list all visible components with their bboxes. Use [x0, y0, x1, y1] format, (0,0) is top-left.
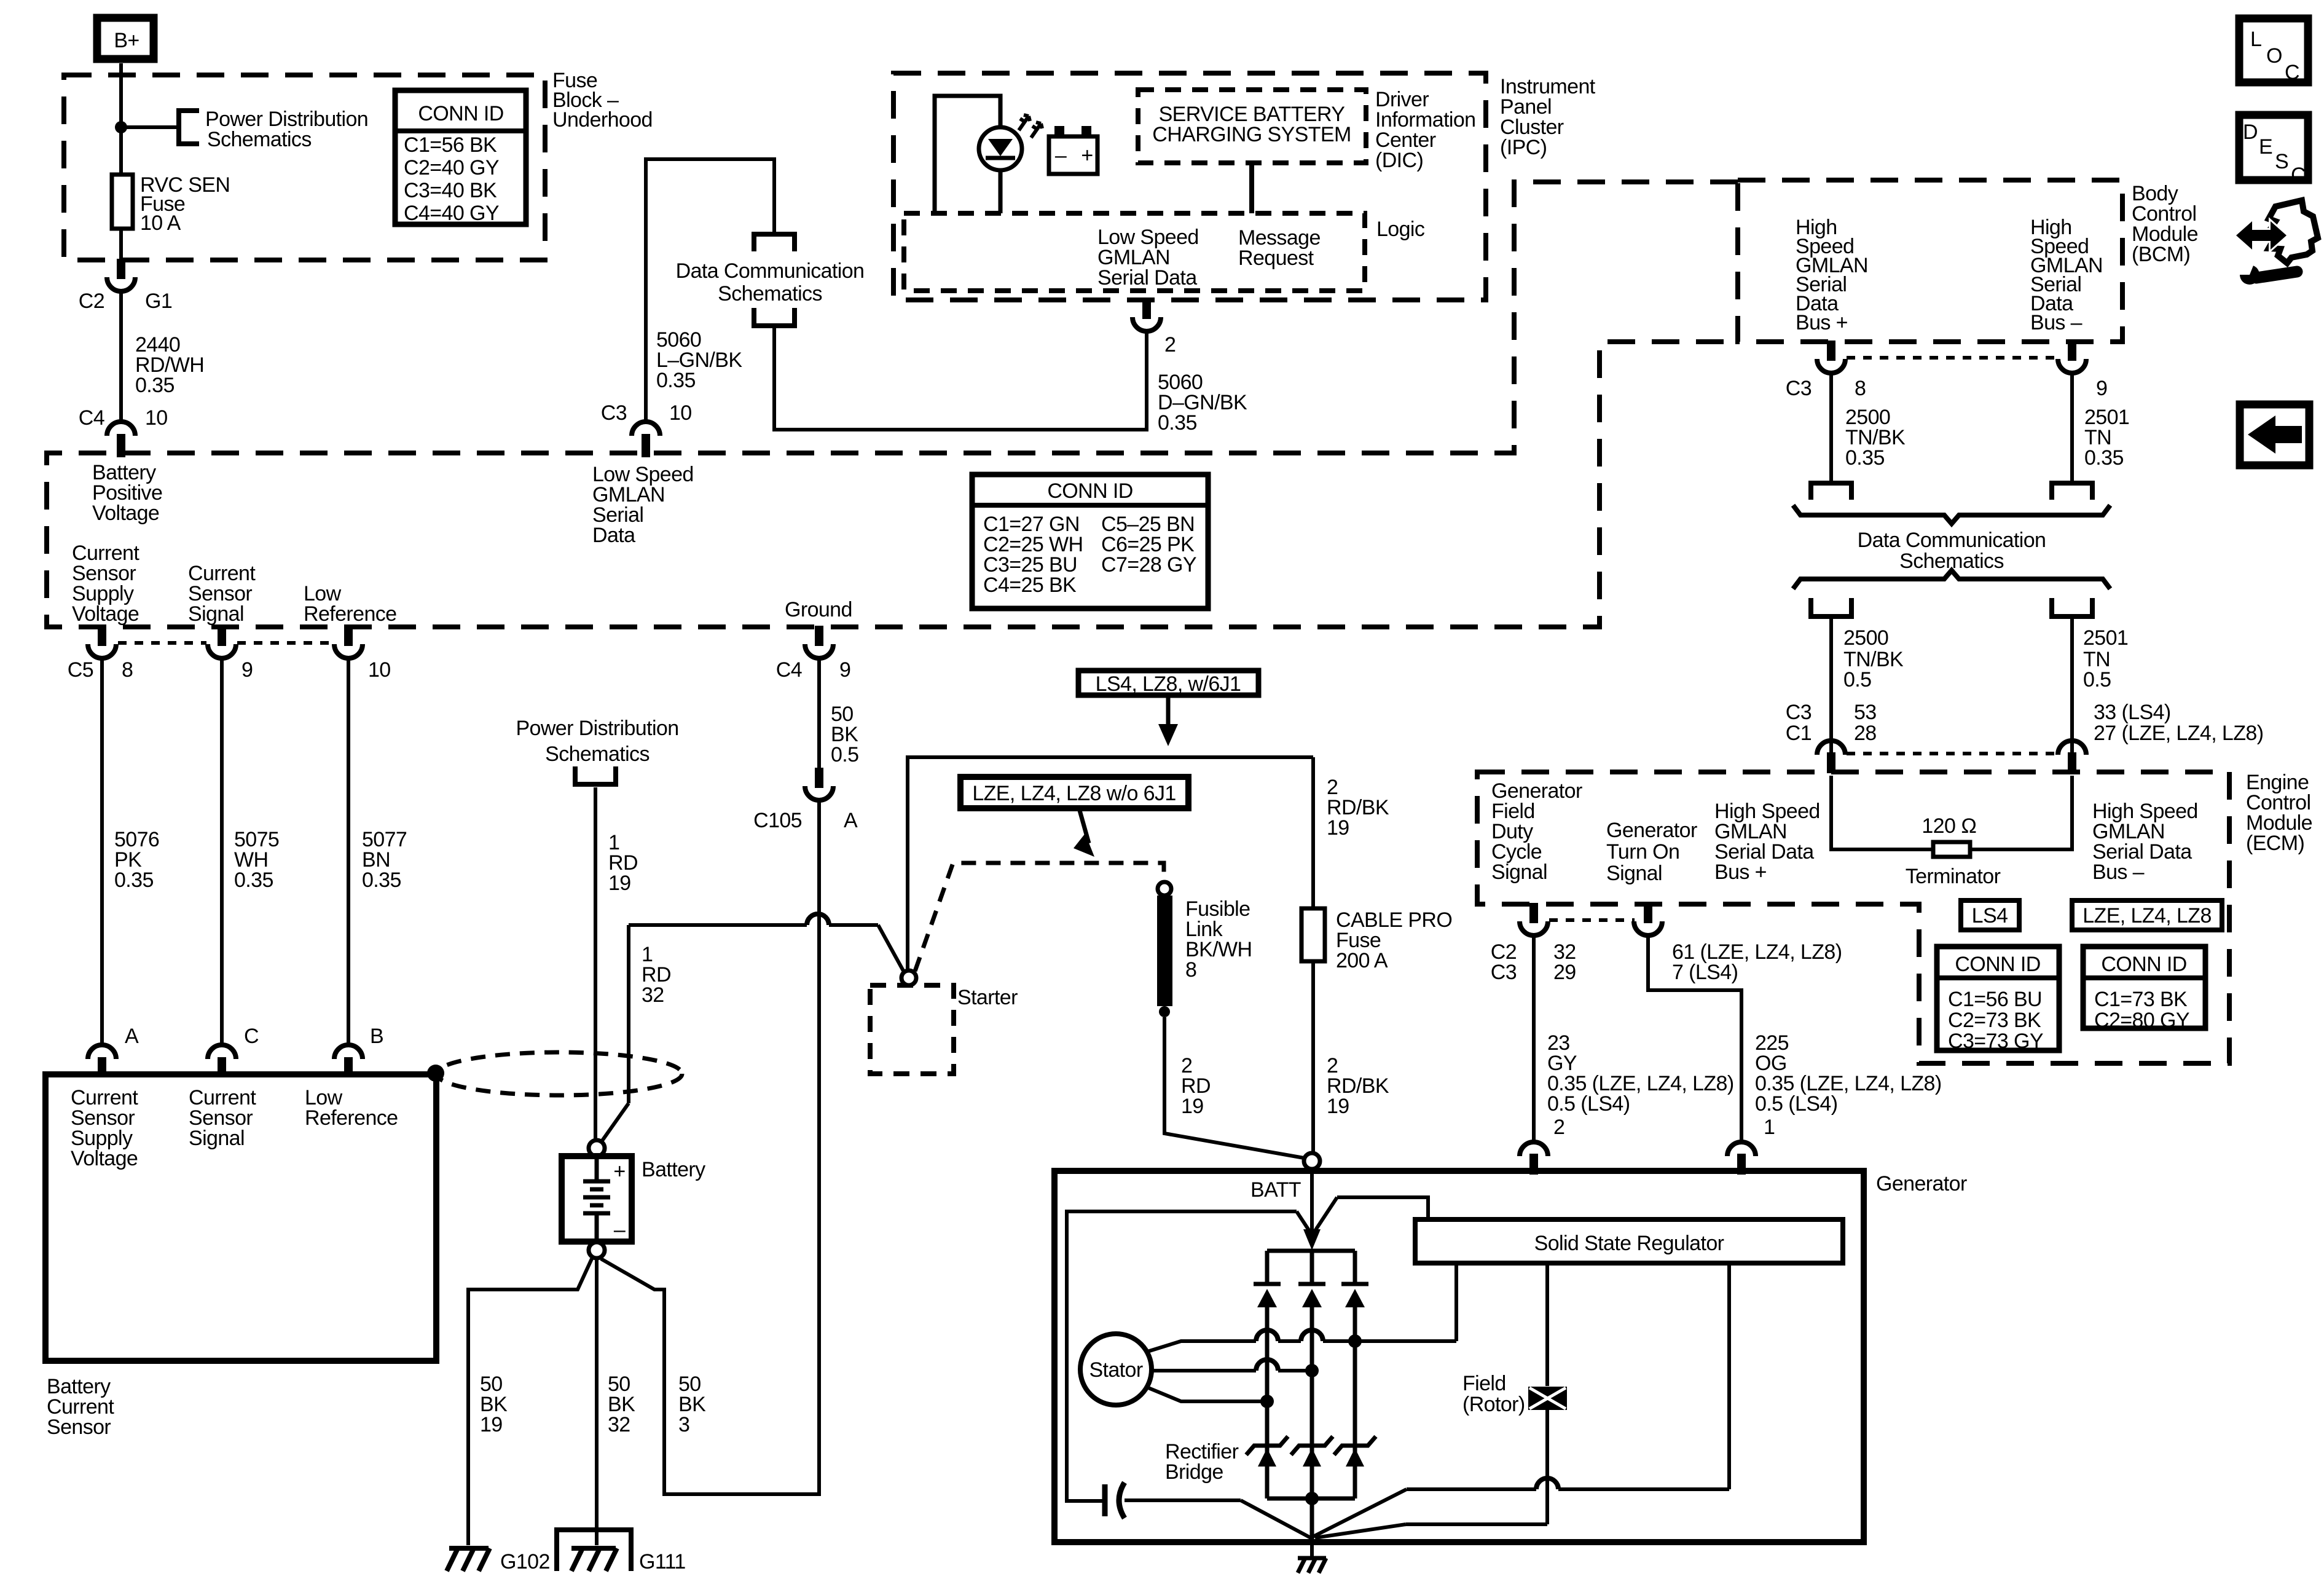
- label Instrument Panel Cluster IPC: [1500, 75, 1596, 159]
- svg-text:CONN ID: CONN ID: [418, 102, 503, 125]
- svg-text:32: 32: [608, 1413, 630, 1436]
- label 2440 RD/WH 0.35: [135, 333, 204, 397]
- svg-text:Reference: Reference: [305, 1106, 398, 1130]
- svg-text:Logic: Logic: [1376, 218, 1425, 241]
- arrow from LZE box: [1074, 808, 1094, 857]
- power distribution schematics callout middle: [516, 717, 678, 766]
- data comm callout upper bracket: [754, 234, 795, 251]
- label Generator Turn On Signal: [1606, 819, 1697, 885]
- label 50 BK 19: [480, 1372, 508, 1436]
- terminal bracket lower left: [1811, 598, 1851, 616]
- regulator ground wire: [1313, 1263, 1729, 1537]
- connector pin 9: [208, 626, 253, 682]
- svg-text:C4: C4: [79, 406, 104, 430]
- svg-text:Terminator: Terminator: [1906, 865, 2001, 888]
- connector BCM C3 8: [1786, 341, 1866, 400]
- svg-text:Bus –: Bus –: [2030, 311, 2083, 334]
- label Fusible Link BK/WH 8: [1185, 897, 1252, 982]
- label Current Sensor Signal sensor: [189, 1086, 256, 1150]
- svg-text:27 (LZE, LZ4, LZ8): 27 (LZE, LZ4, LZ8): [2094, 722, 2263, 745]
- svg-text:E: E: [2259, 135, 2272, 159]
- stator wire top: [1145, 1263, 1456, 1352]
- label 2501 TN 0.5: [2083, 626, 2128, 691]
- svg-text:CHARGING SYSTEM: CHARGING SYSTEM: [1152, 123, 1351, 146]
- CONN ID table LZE: [2083, 947, 2205, 1032]
- svg-text:28: 28: [1854, 722, 1877, 745]
- BATT node generator: [1304, 1153, 1320, 1169]
- label Battery Current Sensor: [47, 1375, 114, 1439]
- wire B+ to fuse: [119, 63, 123, 260]
- svg-text:(BCM): (BCM): [2132, 243, 2190, 266]
- charge indicator LED circuit: [935, 96, 1022, 213]
- svg-text:(DIC): (DIC): [1375, 149, 1423, 172]
- wire 5075 WH: [220, 658, 224, 1043]
- connector B: [334, 1025, 383, 1077]
- zener bottom center: [1291, 1436, 1333, 1467]
- label Power Distribution Schematics: [205, 108, 368, 151]
- svg-text:Voltage: Voltage: [92, 502, 159, 525]
- svg-text:8: 8: [1855, 377, 1866, 400]
- node at power distribution tap: [115, 121, 127, 133]
- svg-text:Data Communication: Data Communication: [1858, 529, 2046, 552]
- svg-text:Schematics: Schematics: [207, 128, 312, 151]
- wire 50 BK 0.5: [817, 658, 821, 768]
- battery current sensor box: [45, 1074, 436, 1361]
- svg-text:0.35: 0.35: [1158, 411, 1197, 435]
- svg-text:C1=56 BU: C1=56 BU: [1948, 988, 2042, 1011]
- label 2500 TN/BK 0.5: [1843, 626, 1904, 691]
- svg-text:Battery: Battery: [642, 1158, 705, 1181]
- svg-text:Signal: Signal: [188, 602, 244, 626]
- label 2500 TN/BK 0.35: [1845, 406, 1906, 470]
- wire 2 RD 19: [1164, 1017, 1304, 1158]
- svg-text:C3=73 GY: C3=73 GY: [1948, 1030, 2043, 1053]
- DESC icon box: [2239, 115, 2308, 187]
- svg-text:0.35: 0.35: [656, 369, 696, 392]
- svg-text:BATT: BATT: [1250, 1178, 1301, 1202]
- ground G111: [557, 1530, 686, 1573]
- svg-text:G111: G111: [639, 1550, 686, 1573]
- svg-text:C3: C3: [1786, 701, 1812, 724]
- svg-text:Signal: Signal: [1606, 862, 1662, 885]
- svg-text:C1: C1: [1786, 722, 1812, 745]
- svg-text:G102: G102: [500, 1550, 550, 1573]
- svg-text:Voltage: Voltage: [72, 602, 139, 626]
- svg-text:120 Ω: 120 Ω: [1922, 814, 1976, 838]
- label 50 BK 0.5: [831, 703, 858, 766]
- svg-text:Generator: Generator: [1606, 819, 1697, 842]
- svg-text:+: +: [613, 1160, 625, 1183]
- mate dotted ECM top: [1847, 752, 2057, 755]
- wire BATT into bridge: [1303, 1169, 1321, 1250]
- wire 50 BK 3 ground loop: [601, 800, 819, 1494]
- svg-text:0.5 (LS4): 0.5 (LS4): [1755, 1092, 1837, 1116]
- label 1 RD 19: [608, 831, 638, 895]
- svg-text:C2=73 BK: C2=73 BK: [1948, 1009, 2041, 1032]
- zener bottom right: [1334, 1436, 1376, 1467]
- svg-text:C1=56 BK: C1=56 BK: [404, 133, 497, 157]
- label Data Communication Schematics callout: [676, 259, 865, 305]
- svg-text:C105: C105: [753, 809, 802, 832]
- wire w6J1 feed to starter: [908, 757, 1313, 971]
- svg-text:9: 9: [241, 658, 253, 682]
- wire battery negative to G111: [595, 1258, 599, 1545]
- harness dashed box: [47, 182, 1738, 627]
- svg-text:0.35: 0.35: [362, 868, 401, 892]
- svg-text:(Rotor): (Rotor): [1462, 1393, 1525, 1416]
- svg-text:B+: B+: [114, 29, 139, 52]
- back arrow icon box: [2240, 404, 2309, 465]
- terminal bracket upper left: [1811, 483, 1851, 500]
- diode top center: [1298, 1250, 1325, 1498]
- label Low Speed GMLAN Serial Data harness: [592, 463, 694, 547]
- svg-text:19: 19: [1327, 816, 1349, 840]
- diode top right: [1341, 1251, 1368, 1498]
- label Current Sensor Signal harness: [188, 562, 256, 626]
- fuse RVC SEN 10A: [112, 175, 133, 229]
- svg-text:C4=40 GY: C4=40 GY: [404, 202, 499, 225]
- label 5075 WH 0.35: [234, 828, 279, 892]
- svg-text:S: S: [2275, 150, 2288, 173]
- capacitor: [1105, 1483, 1311, 1538]
- label Current Sensor Supply Voltage harness: [72, 541, 139, 626]
- connector ECM bus minus: [2058, 701, 2263, 773]
- wire C3 to data comm callout: [646, 159, 774, 422]
- svg-text:O: O: [2266, 44, 2282, 68]
- ground G102: [447, 1548, 550, 1573]
- underbrace data comm: [1793, 505, 2110, 524]
- svg-text:Data: Data: [592, 524, 635, 547]
- battery: [562, 1156, 632, 1242]
- mate dotted line C5 connectors: [118, 641, 333, 645]
- svg-text:7 (LS4): 7 (LS4): [1672, 961, 1738, 984]
- connector BCM 9: [2058, 341, 2107, 400]
- label RVC SEN fuse: [140, 173, 230, 235]
- svg-text:2501: 2501: [2083, 626, 2128, 650]
- svg-text:(ECM): (ECM): [2246, 832, 2304, 855]
- svg-text:C2=80 GY: C2=80 GY: [2094, 1009, 2189, 1032]
- svg-text:Stator: Stator: [1089, 1358, 1142, 1382]
- svg-text:Turn On: Turn On: [1606, 840, 1679, 864]
- svg-text:CONN ID: CONN ID: [1955, 953, 2040, 976]
- svg-text:19: 19: [1181, 1095, 1204, 1118]
- CABLE PRO fuse 200A: [1301, 908, 1325, 961]
- generator internal ground: [1298, 1539, 1326, 1573]
- IPC dashed box: [893, 73, 1486, 300]
- mate dotted BCM: [1847, 356, 2057, 360]
- connector A: [88, 1025, 139, 1077]
- svg-text:C4=25 BK: C4=25 BK: [983, 573, 1077, 597]
- svg-text:Field: Field: [1462, 1372, 1506, 1395]
- label 2501 TN 0.35: [2084, 406, 2129, 470]
- svg-text:0.35: 0.35: [135, 374, 175, 397]
- overbrace data comm: [1793, 570, 2110, 589]
- svg-text:–: –: [1055, 144, 1067, 167]
- LZE LZ4 LZ8 wo6J1 box: [960, 777, 1188, 808]
- svg-text:10 A: 10 A: [140, 211, 181, 235]
- svg-text:0.5: 0.5: [831, 743, 858, 766]
- svg-text:10: 10: [669, 401, 692, 425]
- label Body Control Module BCM: [2132, 182, 2198, 266]
- stator wire middle: [1152, 1360, 1319, 1377]
- label Generator Field Duty Cycle Signal: [1491, 779, 1582, 884]
- CONN ID table LS4: [1937, 947, 2059, 1053]
- SERVICE BATTERY CHARGING SYSTEM box: [1138, 90, 1366, 163]
- battery icon IPC: [1049, 126, 1097, 174]
- label 2 RD/BK 19 upper: [1327, 776, 1389, 840]
- fuse block dashed box: [64, 75, 545, 260]
- svg-text:Bus +: Bus +: [1796, 311, 1848, 334]
- label High Speed GMLAN Serial Data Bus plus ECM: [1714, 800, 1820, 884]
- starter node: [901, 971, 916, 985]
- label 5077 BN 0.35: [362, 828, 407, 892]
- LS4 LZ8 w6J1 box: [1078, 671, 1258, 696]
- svg-text:0.35: 0.35: [114, 868, 154, 892]
- svg-text:Sensor: Sensor: [47, 1416, 111, 1439]
- connector generator pin 2: [1520, 1116, 1564, 1175]
- label Message Request: [1238, 226, 1321, 270]
- bracket below power distribution callout: [575, 766, 616, 784]
- stator: [1080, 1334, 1152, 1405]
- ECM dashed box: [1477, 772, 2229, 1063]
- svg-text:9: 9: [2096, 377, 2107, 400]
- label 50 BK 3: [678, 1372, 706, 1436]
- field rotor wire: [1315, 1263, 1547, 1538]
- wire 1 RD 32: [600, 914, 905, 1143]
- label 5060 D-GN/BK 0.35: [1158, 371, 1247, 435]
- wire 2501 TN 0.5: [2070, 616, 2074, 755]
- svg-text:C4: C4: [776, 658, 802, 682]
- svg-text:19: 19: [1327, 1095, 1349, 1118]
- wire bridge to capacitor branch: [1067, 1211, 1311, 1501]
- svg-text:D: D: [2243, 120, 2258, 144]
- wire 5076 PK: [100, 658, 104, 1043]
- wire 2500 TN/BK 0.35: [1829, 373, 1833, 483]
- label 1 RD 32: [642, 943, 671, 1007]
- label 225 OG 0.35 0.5: [1755, 1031, 1942, 1116]
- label Low Reference harness: [304, 582, 396, 626]
- label High Speed GMLAN Serial Data Bus minus BCM: [2030, 216, 2103, 334]
- connector C: [208, 1025, 259, 1077]
- battery positive node: [589, 1140, 605, 1156]
- svg-text:CONN ID: CONN ID: [1047, 479, 1133, 503]
- svg-text:(IPC): (IPC): [1500, 136, 1547, 159]
- svg-text:Serial Data: Serial Data: [1097, 266, 1197, 289]
- svg-text:B: B: [370, 1025, 383, 1048]
- stator wire bottom: [1145, 1387, 1274, 1408]
- logic dashed box: [904, 213, 1365, 291]
- label Low Speed GMLAN Serial Data in logic: [1097, 226, 1199, 289]
- svg-text:Signal: Signal: [189, 1127, 245, 1150]
- diode top left: [1254, 1251, 1281, 1498]
- label High Speed GMLAN Serial Data Bus plus BCM: [1796, 216, 1868, 334]
- svg-text:0.35: 0.35: [234, 868, 273, 892]
- svg-text:10: 10: [368, 658, 391, 682]
- LOC icon box: [2239, 18, 2308, 84]
- svg-text:C: C: [2291, 163, 2306, 187]
- connector generator pin 1: [1727, 1116, 1775, 1175]
- svg-text:C3: C3: [1491, 961, 1517, 984]
- wire regulator to BATT branch: [1314, 1197, 1428, 1232]
- svg-text:C2: C2: [79, 289, 104, 313]
- B+ terminal box: [97, 18, 154, 59]
- svg-text:A: A: [844, 809, 858, 832]
- svg-text:Bridge: Bridge: [1165, 1460, 1223, 1484]
- svg-text:0.35: 0.35: [2084, 446, 2124, 470]
- label 23 GY 0.35 0.5: [1547, 1031, 1734, 1116]
- wire 23 GY generator field duty: [1532, 935, 1536, 1141]
- svg-text:Generator: Generator: [1876, 1172, 1967, 1195]
- generator box: [1054, 1171, 1864, 1542]
- connector C2 G1: [79, 259, 172, 313]
- svg-text:29: 29: [1553, 961, 1576, 984]
- svg-text:19: 19: [608, 872, 631, 895]
- svg-text:2: 2: [1164, 333, 1176, 356]
- svg-text:+: +: [1081, 144, 1093, 167]
- svg-text:3: 3: [678, 1413, 689, 1436]
- svg-text:CONN ID: CONN ID: [2101, 953, 2186, 976]
- terminal bracket upper right: [2052, 483, 2092, 500]
- svg-text:Data Communication: Data Communication: [676, 259, 865, 283]
- wire 50 BK 19 to G102: [468, 1259, 592, 1545]
- label Data Communication Schematics right: [1858, 529, 2046, 573]
- svg-text:10: 10: [145, 406, 168, 430]
- label 2 RD/BK 19 lower: [1327, 1054, 1389, 1118]
- svg-text:C: C: [2285, 61, 2299, 84]
- svg-text:LS4: LS4: [1972, 904, 2008, 927]
- svg-text:0.35: 0.35: [1845, 446, 1885, 470]
- svg-text:C7=28 GY: C7=28 GY: [1101, 553, 1196, 577]
- rectifier bridge bottom bus: [1267, 1492, 1355, 1539]
- connector ECM C3 C1 bus plus: [1786, 701, 1877, 773]
- connector pin 10: [334, 626, 391, 682]
- wire 2500 TN/BK 0.5: [1829, 616, 1833, 755]
- CONN ID table harness: [972, 474, 1208, 608]
- label Fuse Block Underhood: [552, 69, 653, 132]
- battery negative node: [589, 1242, 605, 1258]
- svg-text:53: 53: [1854, 701, 1877, 724]
- starter dashed box: [870, 985, 954, 1074]
- connector C105 A: [753, 768, 858, 832]
- label 5076 PK 0.35: [114, 828, 159, 892]
- label Battery Positive Voltage: [92, 461, 162, 525]
- svg-text:A: A: [125, 1025, 139, 1048]
- svg-text:200 A: 200 A: [1336, 949, 1388, 972]
- svg-text:LS4, LZ8, w/6J1: LS4, LZ8, w/6J1: [1096, 672, 1241, 696]
- terminal bracket lower right: [2052, 598, 2092, 616]
- connector C4 10: [79, 406, 168, 457]
- svg-text:Bus –: Bus –: [2092, 860, 2145, 884]
- label 61 7 pins: [1672, 940, 1842, 984]
- svg-text:Ground: Ground: [785, 598, 852, 621]
- LED light arrows: [1019, 115, 1042, 138]
- label Engine Control Module ECM: [2246, 771, 2312, 855]
- wire DIC to logic: [1249, 163, 1254, 213]
- arrow from LS4 box: [1158, 695, 1178, 746]
- svg-text:0.5: 0.5: [2083, 668, 2111, 691]
- field rotor symbol: [1528, 1387, 1567, 1410]
- svg-text:0.5: 0.5: [1843, 668, 1871, 691]
- wire 1 RD 19 to battery positive: [594, 787, 597, 1140]
- svg-text:Request: Request: [1238, 246, 1314, 270]
- connector C4 9 ground: [776, 626, 851, 682]
- svg-text:Solid State Regulator: Solid State Regulator: [1534, 1232, 1724, 1255]
- terminator 120 ohm: [1831, 776, 2072, 888]
- label Low Reference sensor: [305, 1086, 398, 1130]
- wire 2440 RD/WH: [119, 291, 123, 422]
- label Current Sensor Supply Voltage sensor: [71, 1086, 138, 1170]
- svg-text:C2=40 GY: C2=40 GY: [404, 156, 499, 179]
- svg-text:2500: 2500: [1843, 626, 1888, 650]
- label 50 BK 32: [608, 1372, 635, 1436]
- connector ECM turn on: [1634, 903, 1662, 935]
- svg-text:Schematics: Schematics: [545, 742, 650, 766]
- twisted pair dashed ellipse: [436, 1052, 682, 1095]
- zener bottom left: [1246, 1436, 1288, 1467]
- svg-text:2: 2: [1553, 1116, 1564, 1139]
- svg-text:C3=40 BK: C3=40 BK: [404, 179, 497, 202]
- label 5060 L-GN/BK 0.35: [656, 328, 742, 392]
- LS4 tag box: [1961, 900, 2019, 930]
- svg-text:Voltage: Voltage: [71, 1147, 138, 1170]
- label High Speed GMLAN Serial Data Bus minus ECM: [2092, 800, 2198, 884]
- mate dotted ECM bottom: [1549, 918, 1635, 922]
- wire tap to bracket: [121, 125, 179, 129]
- splice node on sensor corner: [427, 1065, 444, 1082]
- schematic navigation icon: [2236, 200, 2318, 285]
- BCM dashed box: [1738, 180, 2122, 342]
- label CABLE PRO Fuse 200 A: [1336, 908, 1452, 972]
- svg-text:C1=73 BK: C1=73 BK: [2094, 988, 2188, 1011]
- svg-text:Power Distribution: Power Distribution: [516, 717, 678, 740]
- connector C5 8: [68, 626, 133, 682]
- svg-text:1: 1: [1764, 1116, 1775, 1139]
- svg-text:8: 8: [122, 658, 133, 682]
- svg-text:C: C: [244, 1025, 259, 1048]
- label Rectifier Bridge: [1165, 1440, 1239, 1484]
- label 2 RD 19: [1181, 1054, 1211, 1118]
- wire 225 OG generator turn on: [1648, 935, 1741, 1141]
- wire callout to IPC 5060 D-GN/BK: [774, 326, 1147, 430]
- label Driver Information Center DIC: [1375, 88, 1475, 172]
- LZE tag box: [2072, 900, 2222, 930]
- solid state regulator: [1415, 1219, 1843, 1263]
- svg-text:Signal: Signal: [1491, 860, 1547, 884]
- connector IPC pin 2: [1133, 299, 1161, 331]
- svg-text:C3: C3: [1786, 377, 1812, 400]
- rectifier bridge top bus: [1267, 1249, 1355, 1253]
- svg-text:32: 32: [642, 983, 664, 1007]
- off-page bracket Power Distribution: [179, 111, 199, 144]
- wire 5077 BN: [347, 658, 350, 1043]
- svg-text:LZE, LZ4, LZ8 w/o 6J1: LZE, LZ4, LZ8 w/o 6J1: [972, 782, 1176, 805]
- svg-text:Underhood: Underhood: [552, 108, 653, 132]
- svg-text:LZE, LZ4, LZ8: LZE, LZ4, LZ8: [2083, 904, 2212, 927]
- fusible link: [1157, 882, 1172, 1017]
- svg-text:Starter: Starter: [957, 986, 1018, 1009]
- svg-text:0.5 (LS4): 0.5 (LS4): [1547, 1092, 1630, 1116]
- svg-text:9: 9: [839, 658, 850, 682]
- connector C3 10: [601, 401, 692, 457]
- CONN ID table fuse block: [395, 90, 526, 225]
- svg-text:L: L: [2250, 28, 2261, 51]
- svg-text:33 (LS4): 33 (LS4): [2094, 701, 2171, 724]
- connector ECM C2 C3 field duty: [1491, 903, 1576, 984]
- data comm callout lower bracket: [754, 308, 795, 326]
- svg-text:Bus +: Bus +: [1714, 860, 1767, 884]
- dashed wire wo6J1 to fusible link: [915, 863, 1164, 971]
- svg-text:19: 19: [480, 1413, 503, 1436]
